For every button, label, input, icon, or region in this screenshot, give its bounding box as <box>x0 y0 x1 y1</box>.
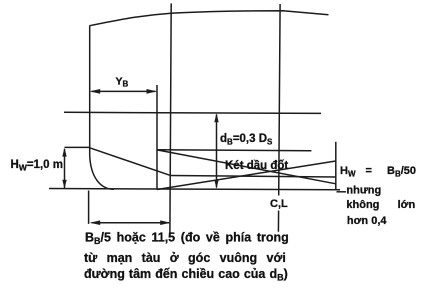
svg-text:Két dầu đốt: Két dầu đốt <box>225 160 288 172</box>
svg-text:HW=1,0 m: HW=1,0 m <box>11 159 63 173</box>
svg-text:nhưng: nhưng <box>346 184 381 196</box>
svg-text:=: = <box>366 165 372 177</box>
svg-text:BB/50: BB/50 <box>387 165 416 179</box>
svg-text:đường tâm đến chiều cao của dB: đường tâm đến chiều cao của dB) <box>84 267 288 283</box>
svg-text:C,L: C,L <box>270 198 288 210</box>
svg-text:BB/5 hoặc 11,5 (đo về phía tro: BB/5 hoặc 11,5 (đo về phía trong <box>85 230 289 246</box>
svg-text:lớn: lớn <box>398 199 416 211</box>
svg-text:không: không <box>346 199 379 211</box>
svg-text:hơn 0,4: hơn 0,4 <box>347 215 387 227</box>
svg-text:từ mạn tàu ở góc vuông với: từ mạn tàu ở góc vuông với <box>84 251 286 265</box>
